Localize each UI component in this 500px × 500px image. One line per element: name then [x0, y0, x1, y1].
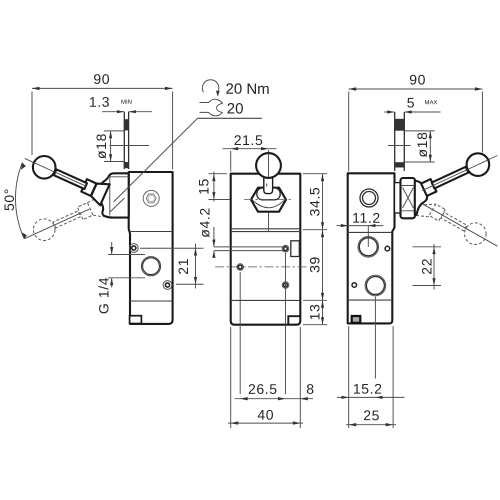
left view: stem black band bottom: [124, 162, 129, 168]
left view: lever rod: [54, 169, 87, 189]
dim 22: [433, 244, 435, 290]
right view: stem mid centerline: [388, 145, 411, 147]
dim 40: [228, 422, 303, 424]
left view: stem mid centerline: [110, 145, 150, 147]
right view: port 1: [358, 237, 379, 258]
left view: lever cone: [91, 184, 110, 206]
left view: dashed lever ball (down pos): [33, 219, 55, 241]
svg-text:90: 90: [409, 71, 426, 87]
right view: body split line: [348, 231, 393, 233]
svg-text:MAX: MAX: [424, 100, 437, 106]
right view: stem outline: [394, 112, 396, 171]
svg-text:22: 22: [419, 258, 435, 275]
left view: body lower line: [130, 300, 173, 302]
right view: dashed lever centerline (down pos): [422, 203, 498, 246]
right view: lever socket: [421, 179, 436, 196]
left view: mounting foot: [130, 316, 142, 324]
svg-text:15: 15: [196, 178, 212, 195]
middle view: valve body outline: [231, 174, 301, 325]
right view: stem black band bottom: [394, 162, 404, 167]
dim 21.5: [223, 148, 277, 150]
middle view: hole left: [237, 264, 244, 271]
right view: lever rod: [432, 167, 469, 189]
wrench icon: [200, 99, 223, 116]
svg-text:ø4.2: ø4.2: [197, 207, 213, 237]
left view: big port G1/4: [141, 257, 160, 276]
right view: small hole right: [385, 246, 390, 251]
svg-text:20: 20: [227, 101, 244, 118]
dim G 1/4: [111, 242, 113, 254]
middle view: double split lines: [231, 228, 301, 230]
middle view: toggle neck: [264, 177, 273, 194]
svg-text:8: 8: [306, 381, 314, 397]
dim 90 left: line+arrows+extensions: [32, 87, 173, 89]
svg-text:90: 90: [93, 71, 110, 87]
middle view: nut centerline: [244, 199, 293, 201]
right view: dashed lever rod: [441, 212, 467, 230]
middle view: toggle hex nut: [251, 188, 286, 212]
svg-text:15.2: 15.2: [353, 381, 383, 397]
svg-text:26.5: 26.5: [248, 381, 278, 397]
left view: small port bottom ring: [163, 281, 172, 290]
middle view: toggle ball: [256, 153, 281, 178]
svg-text:25: 25: [363, 407, 380, 423]
right view: valve body outline: [348, 173, 395, 323]
dim 5 MAX: [384, 111, 394, 113]
left view: lever socket: [81, 179, 96, 196]
svg-text:13: 13: [307, 304, 323, 321]
svg-text:5: 5: [407, 94, 415, 110]
dim phi4.2: [213, 227, 215, 247]
right view: lever ball: [467, 153, 490, 176]
svg-text:50°: 50°: [1, 188, 17, 211]
svg-text:1.3: 1.3: [89, 94, 110, 110]
dim 21 left view: [195, 244, 197, 289]
right view: lever axis centerline: [422, 156, 497, 191]
left view: lever axis centerline: [25, 158, 86, 186]
dim 1.3 MIN: [102, 111, 124, 113]
right view: dashed lever socket: [429, 204, 445, 221]
left view: nut face line: [109, 176, 111, 216]
dim phi18 right: [429, 131, 431, 162]
middle view: tab rect right edge: [291, 241, 300, 257]
svg-text:MIN: MIN: [121, 100, 132, 106]
middle view: horizontal centerline: [215, 266, 308, 268]
svg-text:39: 39: [307, 256, 323, 273]
middle view: hole top right: [282, 245, 289, 252]
left view: dashed cone edges: [87, 199, 103, 217]
right view: port 2: [365, 275, 386, 296]
middle view: hole bottom right: [282, 282, 289, 289]
dim 90 right: [349, 88, 483, 90]
leader underline and diagonal to nut: [198, 117, 263, 119]
dim phi18 left: [110, 131, 112, 162]
dim 11.2: [337, 225, 349, 227]
left view: valve body outline: [129, 172, 173, 324]
middle view: mounting foot: [288, 316, 300, 324]
svg-text:20 Nm: 20 Nm: [225, 81, 269, 98]
middle view: toggle collar: [257, 188, 280, 200]
middle view: hole centerline verticals: [239, 272, 241, 394]
left view: dashed lever socket: [77, 203, 93, 220]
svg-text:ø18: ø18: [93, 133, 109, 159]
svg-text:21.5: 21.5: [234, 132, 264, 148]
left view: 50 deg swing arc: [15, 163, 24, 239]
svg-text:21: 21: [175, 258, 191, 275]
svg-text:11.2: 11.2: [352, 210, 381, 226]
right view: mounting foot (dark): [352, 316, 361, 323]
svg-text:34.5: 34.5: [307, 187, 323, 217]
left view: hex socket hexagon: [146, 194, 156, 203]
dim stack 34.5/39/13: [322, 174, 324, 325]
right view: lever mount nut: [401, 178, 416, 218]
left view: dashed lever rod: [53, 211, 80, 228]
right view: small hole left: [352, 283, 357, 288]
right view: dashed lever ball: [465, 223, 487, 245]
middle view: toggle centerline vertical: [268, 150, 270, 231]
dim 15.2 / 25: [374, 297, 376, 379]
dim 15: [213, 172, 215, 202]
left view: stem black band top (1.3 min): [124, 119, 129, 130]
right view: stem collar: [395, 183, 401, 213]
left view: stem outline: [123, 112, 125, 169]
left view: body split line: [129, 231, 172, 233]
right view: lever cone: [415, 181, 427, 215]
torque icon circular arrow: [202, 80, 219, 92]
svg-text:G 1/4: G 1/4: [96, 277, 112, 314]
left view: dashed lever centerline (down pos): [25, 209, 90, 238]
right view: nut inner lines: [401, 186, 415, 211]
left view: nut chamfer diagonal: [110, 198, 125, 212]
right view: stem black band top (5 max): [394, 119, 404, 131]
svg-text:40: 40: [257, 407, 274, 423]
right view: top circle: [360, 189, 378, 207]
middle view: nut chamfer arc: [252, 199, 285, 207]
svg-text:ø18: ø18: [414, 132, 430, 158]
middle view: phi4.2 leader lines: [214, 246, 283, 248]
right view: dashed cone edges: [416, 204, 436, 217]
left view: lever ball: [33, 156, 56, 179]
left view: hex socket screw circle: [143, 190, 159, 206]
dim 26.5 / 8 bottom extensions: [230, 327, 232, 428]
middle view: lower line: [231, 299, 301, 301]
right view: body lower line: [348, 299, 393, 301]
left view: toggle clamp nut: [101, 173, 129, 217]
left view: small port top ring: [129, 244, 138, 253]
